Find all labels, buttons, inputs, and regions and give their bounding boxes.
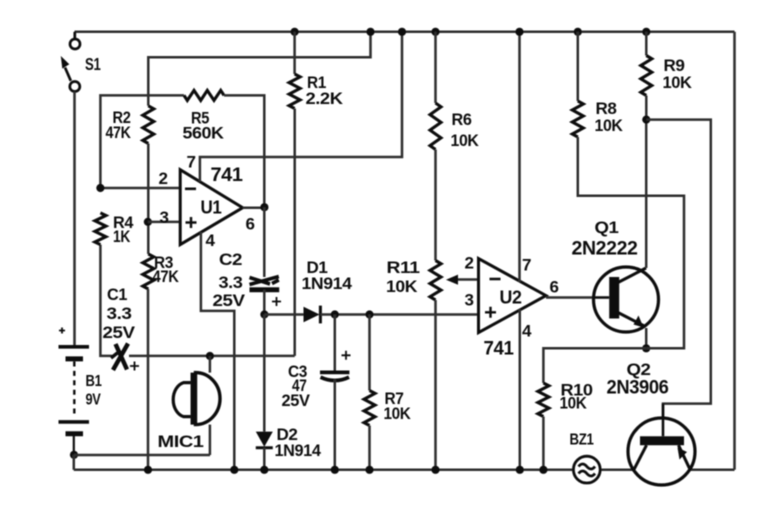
battery B1 [59, 347, 90, 455]
svg-text:1K: 1K [113, 227, 131, 246]
wire Q1 collector to R9 node [645, 120, 648, 268]
wire bottom rail BZ1 to Q2 collector [600, 469, 633, 472]
junction C2-D1-D2 node [260, 310, 268, 318]
svg-text:10K: 10K [451, 131, 480, 150]
wire R5 to U1 output vertical [224, 95, 264, 206]
wire R9 node to Q2 base loop right side [646, 120, 711, 418]
op-amp U1 741 triangle [180, 170, 243, 245]
svg-text:741: 741 [484, 339, 515, 360]
junction C3 at ground rail [331, 466, 339, 474]
svg-text:10K: 10K [560, 394, 588, 413]
svg-text:1N914: 1N914 [275, 441, 322, 460]
wire right edge rail [733, 32, 736, 470]
svg-text:S1: S1 [85, 54, 101, 74]
wire U1 pin2 input [100, 187, 180, 190]
svg-text:3.3: 3.3 [219, 273, 243, 292]
wire U2 pin7 to supply rail [518, 32, 521, 282]
svg-text:10K: 10K [663, 73, 693, 92]
junction U1 pin7 wire at supply rail [398, 28, 406, 36]
U1 plus sign [186, 217, 197, 228]
svg-text:C2: C2 [219, 250, 242, 269]
junction R8 at supply rail [574, 28, 582, 36]
wire Q1 emitter down to emitter node [645, 328, 648, 348]
wire D2 cathode to ground rail [263, 448, 266, 470]
svg-text:3.3: 3.3 [107, 304, 132, 323]
U2 plus sign [485, 307, 496, 318]
transistor Q2 2N3906 [628, 404, 695, 485]
C3 plus mark [342, 351, 351, 360]
svg-text:10K: 10K [386, 277, 418, 296]
wire R7 to ground rail [368, 426, 371, 470]
C2 plus mark [272, 297, 281, 306]
junction Q1 emitter node [642, 344, 650, 352]
resistor R4 [95, 213, 106, 245]
svg-text:7: 7 [187, 153, 196, 172]
microphone MIC1 [173, 373, 220, 425]
wire U1 pin3 input [148, 221, 180, 224]
wire U2 pin4 to ground rail [519, 309, 522, 470]
svg-text:25V: 25V [282, 391, 311, 410]
svg-text:10K: 10K [595, 116, 624, 135]
potentiometer R11 [430, 261, 441, 301]
wire R7 top [368, 315, 371, 391]
wire U1 output down to C2 [263, 207, 266, 277]
svg-text:2N2222: 2N2222 [572, 238, 639, 260]
wire supply to R6 [434, 32, 437, 103]
svg-text:B1: B1 [86, 373, 102, 390]
svg-text:560K: 560K [183, 124, 225, 143]
wire R9 to Q1 collector node [645, 96, 648, 120]
R11 wiper arrow to U2 pin2 [456, 278, 479, 281]
svg-text:4: 4 [522, 322, 532, 341]
wire U1 pin6 output [243, 206, 265, 209]
resistor R10 [538, 383, 549, 417]
svg-text:4: 4 [206, 231, 216, 250]
wire R10 to ground rail [542, 417, 545, 470]
wire D1 anode node down to D2 [263, 315, 266, 432]
svg-text:R6: R6 [452, 110, 472, 129]
svg-text:6: 6 [550, 278, 559, 297]
U1 minus sign [185, 188, 196, 191]
transistor Q1 2N2222 [594, 267, 659, 332]
svg-text:9V: 9V [86, 392, 102, 409]
wire U2 pin6 output to Q1 base [546, 296, 594, 299]
wire bottom ground rail left section [74, 469, 574, 472]
capacitor C1 [113, 344, 128, 371]
wire supply to R9 [645, 32, 648, 56]
svg-text:Q1: Q1 [595, 218, 619, 237]
switch S1 [65, 32, 80, 92]
wire mic node down to MIC1 [209, 356, 212, 373]
junction R6 at supply rail [431, 28, 439, 36]
junction U1 pin2 node [96, 184, 104, 192]
junction R10 at ground rail [539, 466, 547, 474]
resistor R5 [184, 90, 224, 100]
junction R7 top node [365, 310, 373, 318]
svg-text:2: 2 [159, 169, 168, 188]
U2 minus sign [490, 278, 501, 281]
wire D1 cathode to U2 pin3 [320, 313, 478, 316]
resistor R6 [430, 103, 441, 150]
buzzer BZ1 [573, 456, 600, 483]
wire R3 to ground rail [147, 289, 150, 470]
wire R2 to R3 through pin3 node [147, 144, 150, 255]
diode D1 [304, 307, 320, 323]
junction R11 at ground rail [431, 466, 439, 474]
wire R6 to R11 [434, 150, 437, 261]
svg-text:MIC1: MIC1 [158, 432, 204, 451]
op-amp U2 741 triangle [479, 259, 547, 333]
svg-text:2N3906: 2N3906 [607, 377, 670, 399]
junction R9 bottom node [642, 116, 650, 124]
wire battery minus to ground rail [73, 455, 76, 470]
svg-text:BZ1: BZ1 [570, 432, 594, 449]
junction U1 output node [260, 203, 268, 211]
wire top supply rail [75, 31, 735, 34]
svg-text:3: 3 [160, 208, 169, 227]
junction battery minus node [70, 451, 78, 459]
wire S1 to battery positive [73, 92, 76, 347]
wire C2 to D1 anode node [263, 290, 266, 315]
wire U1 pin7 to supply [200, 32, 402, 182]
svg-text:U1: U1 [201, 197, 222, 218]
junction U2 pin7 at supply rail [515, 28, 523, 36]
wire C1 to microphone node and R1 [129, 355, 295, 358]
junction C3 top node [331, 310, 339, 318]
svg-text:47K: 47K [106, 123, 132, 142]
resistor R1 [289, 74, 300, 109]
svg-text:741: 741 [211, 165, 244, 186]
wire MIC1 to battery return [209, 425, 212, 455]
wire supply rail to R1 [293, 32, 296, 74]
resistor R7 [364, 391, 375, 426]
wire Q1 emitter to R10 [543, 348, 646, 383]
svg-text:25V: 25V [103, 323, 136, 342]
junction U2 pin4 at ground rail [516, 466, 524, 474]
junction supply at x370 [366, 28, 374, 36]
wire supply to R8 [577, 32, 580, 101]
wire bottom rail Q2 emitter to right edge [690, 469, 735, 472]
svg-text:1N914: 1N914 [302, 274, 353, 293]
wire R8 bottom to Q1 emitter [578, 137, 684, 348]
svg-text:R11: R11 [387, 258, 420, 277]
junction R3 at ground rail [144, 466, 152, 474]
junction U1 pin3 node [144, 218, 152, 226]
svg-text:10K: 10K [384, 404, 412, 423]
junction D2 at ground rail [260, 466, 268, 474]
svg-text:3: 3 [465, 291, 474, 310]
junction R7 at ground rail [365, 466, 373, 474]
wire pin2 node up to R5 feedback [100, 95, 184, 188]
junction microphone tap node [206, 352, 214, 360]
svg-text:6: 6 [246, 215, 255, 234]
resistor R2 [143, 106, 154, 144]
junction U1 pin4 wire at ground rail [230, 466, 238, 474]
capacitor C3 [320, 370, 349, 374]
wire U1 pin4 to ground [201, 232, 234, 470]
svg-text:2: 2 [465, 254, 474, 273]
wire R1 bottom to microphone node [293, 109, 296, 356]
wire D1 anode segment [264, 313, 304, 316]
wire C3 top [334, 315, 337, 372]
resistor R3 [143, 254, 154, 289]
wire R4 bottom to C1 [100, 245, 112, 356]
junction R9 at supply rail [642, 28, 650, 36]
svg-text:U2: U2 [500, 287, 522, 308]
junction R1 at supply rail [291, 28, 299, 36]
svg-text:7: 7 [522, 256, 531, 275]
diode D2 [256, 432, 273, 447]
wire battery minus to MIC1 return [74, 454, 210, 457]
C1 plus mark [130, 362, 139, 371]
battery plus sign [59, 328, 65, 334]
resistor R8 [572, 101, 583, 137]
svg-text:2.2K: 2.2K [306, 89, 344, 108]
wire C3 to ground rail [334, 380, 337, 470]
capacitor C2 [250, 277, 279, 285]
wire R2 top to supply rail [148, 32, 370, 106]
svg-text:C1: C1 [107, 285, 127, 304]
svg-text:47K: 47K [153, 267, 180, 286]
resistor R9 [641, 56, 652, 96]
svg-text:25V: 25V [213, 291, 246, 310]
wire R11 to ground rail [434, 300, 437, 470]
